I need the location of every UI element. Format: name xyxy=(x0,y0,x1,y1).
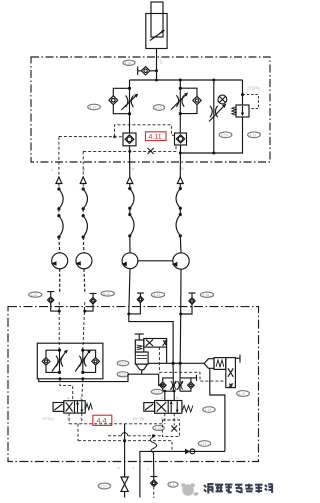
svg-text:DT7(4): DT7(4) xyxy=(43,417,54,421)
hose symbols L2 xyxy=(82,187,88,253)
4.4 red reference box xyxy=(93,415,112,425)
label ellipse bottom mid xyxy=(168,482,178,487)
flow control FCb (on L2, check right) xyxy=(75,349,99,374)
watermark logo (panda) xyxy=(181,483,199,496)
dual throttle check pair (on A and B) xyxy=(159,363,194,391)
label ellipse TP2 xyxy=(101,291,114,296)
flow control FCa (on L1, check left) xyxy=(42,349,68,374)
wire pair to valve2 ports xyxy=(164,391,166,400)
lower manifold enclosure (dash-dot box) xyxy=(8,307,259,462)
pilot operated check valve POC-B (right square) xyxy=(175,133,187,145)
svg-text:4.10: 4.10 xyxy=(154,293,161,297)
plug on right of pair xyxy=(191,375,197,381)
wire L1 jog into V1 port A xyxy=(60,379,73,401)
svg-text:4.10: 4.10 xyxy=(119,362,126,366)
drain collector line xyxy=(39,374,163,385)
rotary coupling L1 (circle with triangle) xyxy=(51,253,68,292)
unloader pilot box xyxy=(135,352,148,364)
svg-text:4.10: 4.10 xyxy=(100,485,107,489)
svg-text:4.10: 4.10 xyxy=(119,373,126,377)
hose symbols B (arcs bulge left) xyxy=(176,187,182,253)
wire P port down with hop under dashed line xyxy=(124,424,126,477)
solenoid valve V2 (4.4 right) solenoid xyxy=(144,403,155,412)
test coupling TP4 (right of B) xyxy=(179,293,195,316)
unloader stack vent plug xyxy=(135,334,144,340)
svg-text:4.10: 4.10 xyxy=(221,133,228,137)
svg-text:4.10: 4.10 xyxy=(250,133,257,137)
wire C from cylinder xyxy=(156,49,158,81)
svg-text:B: B xyxy=(80,396,83,400)
V1 return spring xyxy=(85,404,92,410)
svg-text:4.11: 4.11 xyxy=(149,134,162,141)
node L tap on dashed line xyxy=(152,434,155,437)
label ellipses bottom right of top manifold xyxy=(219,132,232,138)
svg-text:L: L xyxy=(52,167,55,172)
shutoff valve on P (open bowtie) xyxy=(121,477,128,498)
dashed pilot from unloader to seq valve xyxy=(159,347,225,381)
wire L2 into dual flow control block xyxy=(83,302,85,350)
pilot line D2 (dashed to POC-B) xyxy=(115,125,175,137)
flow control valve FC1 (throttle with check bypass, line A) xyxy=(109,80,138,133)
svg-text:4.1: 4.1 xyxy=(170,483,175,487)
hose symbols L1 (two arcs) xyxy=(57,187,63,252)
label ellipse above V2 xyxy=(151,389,163,394)
svg-text:L: L xyxy=(147,466,150,471)
flow control valve FC2 (throttle with check bypass, line B) xyxy=(171,80,201,133)
watermark text 液压传动与控制 xyxy=(204,484,273,494)
sequence valve body (vertical, X position) xyxy=(226,358,236,388)
svg-text:4.10: 4.10 xyxy=(205,408,212,412)
unloader 2-position valve (horizontal) xyxy=(144,339,168,348)
vent plug of sequence valve xyxy=(235,355,240,363)
label ellipse TP1 xyxy=(29,292,42,297)
pilot operated check valve POC-A (left square) xyxy=(123,133,136,146)
solenoid valve V1 (4.4 left) solenoid xyxy=(53,403,64,412)
test coupling TP1 (left of L1) xyxy=(47,292,61,313)
rotary coupling A xyxy=(121,253,138,314)
svg-text:4.10: 4.10 xyxy=(153,390,160,394)
rotary coupling B xyxy=(172,253,189,314)
svg-text:A: A xyxy=(161,396,164,400)
wire L1 into dual flow control block xyxy=(58,302,60,350)
wire L drain with crossover hop xyxy=(150,437,156,477)
label ellipse TP4 xyxy=(200,292,213,297)
svg-text:B: B xyxy=(181,166,184,171)
test coupling TP3 (right of A) xyxy=(127,293,144,315)
svg-text:4.10: 4.10 xyxy=(239,392,246,396)
node P tap on drain bus xyxy=(123,439,126,442)
test coupling TP2 (right of L2) xyxy=(83,294,96,313)
dual flow control block housing xyxy=(37,343,103,379)
label ellipse left of FC2 xyxy=(153,105,164,111)
svg-text:4.10: 4.10 xyxy=(125,61,132,65)
drain from sequence valve down to T collector xyxy=(210,369,225,452)
wire T collector with check valve xyxy=(140,451,225,497)
label ellipse 4.6 xyxy=(203,407,215,413)
pilot line D1 (dashed to POC-A) xyxy=(59,135,123,138)
wire L1 drain line (dashed) down from manifold xyxy=(58,137,60,189)
wire bus1 (top manifold upper bus) xyxy=(130,79,243,81)
wire A down from POC-A xyxy=(129,146,131,177)
sequence valve spring box xyxy=(214,358,226,370)
relief valve (210Pa) xyxy=(232,80,259,121)
flow direction triangles on lines L1 L2 A B xyxy=(56,177,62,184)
wire B down xyxy=(179,314,182,363)
svg-text:4.10: 4.10 xyxy=(200,442,207,446)
svg-text:4.10: 4.10 xyxy=(103,292,110,296)
label ellipse right of sequence valve xyxy=(237,391,250,397)
svg-text:DT7(5): DT7(5) xyxy=(133,417,144,421)
svg-text:4.10: 4.10 xyxy=(155,106,162,110)
V2 return spring xyxy=(182,406,193,413)
svg-text:C: C xyxy=(160,60,164,65)
svg-text:A: A xyxy=(132,166,135,171)
filter funnel under stack xyxy=(136,364,148,374)
wire L2 into V1 port B xyxy=(82,379,83,401)
pilot line D3 (dashed drain with plug X) xyxy=(83,146,176,153)
label ellipses left of stack xyxy=(117,361,129,366)
label ellipse 4.7 xyxy=(198,441,210,447)
svg-text:M: M xyxy=(82,167,85,172)
wire B down from POC-B xyxy=(179,145,181,177)
cylinder (top accumulator/cylinder with adjustable arrow) xyxy=(146,2,167,49)
4.11 red reference box xyxy=(146,132,167,141)
wire A jog to middle column xyxy=(129,314,173,363)
svg-text:210Pa: 210Pa xyxy=(247,86,260,91)
svg-text:T: T xyxy=(132,466,135,471)
wire bus2 (lower bus of top manifold) xyxy=(180,121,242,153)
rotary coupling L2 xyxy=(75,253,92,292)
svg-text:A: A xyxy=(67,396,70,400)
wire L2 drain line (dashed) down from manifold xyxy=(82,151,84,188)
dashed drain network under valves xyxy=(69,413,179,451)
top manifold enclosure (dash-dot box) xyxy=(31,57,270,162)
svg-text:T: T xyxy=(80,417,83,421)
solenoid valve V2 body xyxy=(155,401,182,414)
plug X on drain line xyxy=(148,148,154,154)
svg-text:4.10: 4.10 xyxy=(90,106,97,110)
wire pilot bus y363 xyxy=(148,362,204,364)
plug X on V2 T-line xyxy=(171,426,177,432)
check coupling at node C (plug bar + check diamond) xyxy=(138,67,158,76)
svg-text:4.10: 4.10 xyxy=(155,426,162,430)
hose symbols A xyxy=(128,187,134,253)
svg-text:P: P xyxy=(118,466,121,471)
svg-text:4.10: 4.10 xyxy=(203,293,210,297)
label ellipse 4.10 (top) xyxy=(123,60,135,65)
label ellipse TP3 xyxy=(151,292,164,297)
unloader stack solenoid/spring column xyxy=(135,340,144,352)
sequence valve pilot head (pentagon) xyxy=(204,359,214,369)
svg-text:B: B xyxy=(176,396,179,400)
label ellipse 4.5 xyxy=(153,425,165,430)
test coupling on L at bottom xyxy=(150,477,157,499)
solenoid valve V1 body xyxy=(64,401,85,413)
label ellipse bottom left xyxy=(98,483,110,489)
gauge line with shutoff (circle-X gauge and adjustable throttle) xyxy=(209,80,227,155)
check valve on T collector xyxy=(185,449,195,455)
wire between couplings A and B xyxy=(138,260,173,262)
svg-text:4.10: 4.10 xyxy=(31,293,38,297)
label ellipse left of FC1 xyxy=(88,104,101,110)
